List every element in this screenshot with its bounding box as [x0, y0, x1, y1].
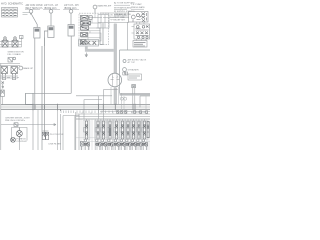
spool V3 pilot cap — [101, 128, 103, 133]
svg-text:PILOT FILTER: PILOT FILTER — [50, 134, 64, 136]
spool V3 stem — [103, 119, 105, 142]
drop x60.6 — [60, 114, 62, 150]
spool V2 feed lines — [96, 119, 101, 150]
spool V6 lower cluster — [120, 139, 122, 142]
check arrow below manifold — [85, 53, 87, 58]
bank mid passage line — [76, 137, 150, 139]
spool V4 tail — [109, 146, 112, 151]
breather symbol — [132, 85, 136, 88]
spool V3 tail — [103, 146, 106, 151]
bank left edge pair — [76, 112, 79, 150]
spool V1 relief cluster — [84, 143, 89, 146]
cylinder 2 body — [68, 25, 74, 37]
swing line horiz y95.8 — [76, 95, 112, 97]
travel motor cluster 2 valve L — [1, 67, 8, 76]
load check blob — [109, 128, 112, 137]
spool V7 body — [127, 121, 129, 139]
port circle D — [29, 10, 33, 14]
cylinder D check arrow — [30, 13, 32, 15]
port relief left cluster — [80, 142, 83, 151]
spool V5 relief cluster — [114, 143, 119, 146]
svg-text:HYD. SCHEMATIC: HYD. SCHEMATIC — [1, 2, 23, 6]
filter drop line — [32, 93, 34, 150]
pump suction line 3 — [98, 22, 129, 24]
vertical drop from block — [100, 23, 103, 45]
cluster A link lines — [88, 18, 102, 29]
spool V10 feed lines — [142, 119, 147, 150]
spool V5 lower cluster — [114, 139, 116, 142]
spool V8 lower cluster — [131, 139, 133, 142]
shuttle out line — [1, 97, 3, 105]
spool V5 tail — [116, 146, 119, 151]
inline check box — [14, 123, 18, 127]
spool V4 body — [109, 121, 111, 139]
svg-text:CENTER SWIVEL JOINT: CENTER SWIVEL JOINT — [5, 117, 30, 119]
drop elbow — [100, 44, 103, 46]
return header stub — [25, 93, 27, 104]
band junction marks — [33, 104, 135, 111]
svg-text:WITH AIR BLEED: WITH AIR BLEED — [114, 7, 132, 10]
pilot filter block — [42, 131, 48, 140]
tank outlet circles — [120, 97, 123, 100]
spool V4 relief cluster — [108, 143, 113, 146]
spool V6 stem — [122, 119, 124, 142]
bank top tick marks — [82, 112, 147, 114]
shuttle valve symbol — [1, 82, 5, 97]
spool V7 lower cluster — [126, 139, 128, 142]
spool V6 body — [121, 121, 123, 139]
accumulator drop — [18, 141, 20, 151]
svg-text:MAKE UP: MAKE UP — [23, 67, 33, 70]
spool V9 lower cluster — [137, 139, 139, 142]
svg-text:T.S. PUMP: T.S. PUMP — [131, 4, 142, 6]
svg-text:LINE FILTER: LINE FILTER — [49, 144, 62, 146]
spool V8 feed lines — [131, 119, 136, 150]
spool V4 lower cluster — [108, 139, 110, 142]
spool V10 relief cluster — [142, 143, 147, 146]
spool V2 stem — [97, 119, 99, 142]
spool V4 pilot cap — [107, 128, 109, 133]
sub tank corner — [140, 96, 150, 108]
parts table — [2, 8, 18, 18]
block inner lines — [81, 31, 101, 38]
regulator side ticks — [132, 27, 150, 41]
accumulator gauge circle — [11, 137, 16, 142]
regulator box — [134, 24, 150, 39]
spool V2 pilot cap — [95, 128, 97, 133]
spool V2 relief cluster — [96, 143, 101, 146]
svg-text:AIR CON COND: AIR CON COND — [26, 4, 43, 7]
spool V7 relief cluster — [126, 143, 131, 146]
svg-text:AT TOP: AT TOP — [128, 61, 136, 64]
accumulator check valve — [16, 128, 22, 141]
return line mid — [41, 46, 43, 150]
cluster 1 riser — [21, 37, 23, 48]
accumulator loop — [12, 128, 28, 141]
spool V10 tail — [144, 146, 147, 151]
cooler box top — [63, 115, 79, 117]
center drop lines — [37, 110, 39, 150]
spool V1 pilot cap — [84, 128, 86, 133]
spool V9 body — [138, 121, 140, 139]
spool V5 feed lines — [114, 119, 119, 150]
cylinder D piston — [35, 29, 40, 32]
pump suction line 2 — [103, 17, 129, 19]
svg-text:STRAINER: STRAINER — [128, 69, 139, 72]
spool V3 relief cluster — [101, 143, 106, 146]
cluster 1 port — [20, 36, 24, 39]
spool V5 stem — [116, 119, 118, 142]
cluster 2 port circle — [19, 66, 23, 70]
pump circle 2 — [137, 14, 140, 17]
pilot pump label box — [133, 41, 147, 48]
bank thin verticals — [81, 119, 149, 150]
spool V6 tail — [122, 146, 125, 151]
spool V9 feed lines — [137, 119, 142, 150]
svg-text:MAIN RELIEF: MAIN RELIEF — [98, 5, 112, 8]
spool V6 relief cluster — [120, 143, 125, 146]
cooler box left — [62, 116, 64, 150]
spool V2 tail — [97, 146, 100, 151]
pump circle 1 — [131, 15, 135, 19]
spool V1 stem — [86, 119, 88, 142]
cylinder 1 rod — [50, 13, 52, 26]
cluster 2 lower pipes — [0, 76, 18, 78]
cluster 2 header lines — [0, 64, 20, 66]
swing line vertical x98.5 — [98, 96, 100, 119]
svg-text:FILL / DRAIN: FILL / DRAIN — [8, 53, 21, 56]
spool V7 tail — [127, 146, 130, 151]
tank boundary top — [120, 49, 151, 51]
swing motor circle — [108, 73, 122, 87]
pump internals dense — [133, 13, 147, 22]
svg-text:• P RELIEF SET: • P RELIEF SET — [110, 20, 126, 22]
cooler box right — [74, 116, 76, 150]
band junction dots — [35, 105, 44, 110]
regulator internals dense — [136, 26, 149, 39]
right manifold risers — [122, 94, 147, 111]
spool V5 body — [115, 121, 117, 139]
spool V8 pilot cap — [131, 128, 133, 133]
cylinder D body — [34, 28, 40, 39]
main return bus line 1 — [1, 104, 150, 106]
main return bus line 2 — [1, 106, 150, 108]
swing drain vertical — [102, 90, 104, 119]
spool V9 relief cluster — [137, 143, 142, 146]
gauge port stem — [94, 9, 96, 13]
spool V4 feed lines — [108, 119, 113, 150]
spool V2 lower cluster — [96, 139, 98, 142]
pilot bus line 1 — [76, 113, 150, 115]
pilot box small — [8, 58, 13, 63]
swing elbow x84 — [84, 100, 102, 119]
travel motor cluster 2 valve R — [11, 67, 18, 76]
travel motor cluster 1 valve R — [12, 37, 18, 47]
tank bottom edge — [120, 92, 151, 94]
pilot block extra marks — [82, 16, 93, 42]
spool V1 body — [85, 121, 87, 139]
pump to regulator links — [137, 22, 144, 24]
delivery pipe casing — [114, 24, 117, 104]
spool V7 feed lines — [126, 119, 131, 150]
breather pipes — [133, 88, 135, 105]
spool V10 body — [143, 121, 145, 139]
spool V10 pilot cap — [142, 128, 144, 133]
spool V10 body — [147, 122, 149, 138]
component row under band — [117, 111, 148, 114]
spool V8 body — [132, 121, 134, 139]
label underline 2 — [63, 8, 79, 10]
spool V9 tail — [138, 146, 141, 151]
port circle 1 — [49, 10, 53, 14]
pump suction line 1 — [100, 12, 129, 14]
outlet box valves — [81, 41, 97, 45]
tank boundary left — [119, 50, 121, 94]
cylinder D diagonal pipe — [32, 15, 38, 28]
spool V1 tail — [86, 146, 89, 151]
tank bottom band — [120, 94, 151, 96]
spool V7 pilot cap — [125, 128, 127, 133]
motor inner marks — [111, 77, 120, 80]
spool V10 lower cluster — [142, 139, 144, 142]
tiny caption row — [2, 76, 19, 78]
label underline 1 — [43, 8, 60, 10]
solenoid valve cluster A — [81, 16, 91, 31]
left frame line — [0, 64, 2, 151]
svg-text:COUPLER: COUPLER — [17, 141, 28, 143]
cylinder D label underline — [25, 8, 40, 10]
motor pilot boxes — [123, 72, 128, 75]
tank port circle a — [123, 60, 126, 63]
svg-text:AIR BLEED VALVE: AIR BLEED VALVE — [128, 59, 147, 62]
cylinder 1 piston — [49, 27, 54, 30]
parts table cell text — [2, 9, 16, 15]
svg-text:GREASE FILLED: GREASE FILLED — [114, 13, 132, 16]
right band extra line — [100, 110, 150, 112]
band tick row left of bank — [61, 111, 113, 114]
block right sub-box — [98, 15, 109, 29]
cylinder 2 rod — [70, 13, 72, 24]
cylinder 2 piston — [69, 26, 74, 29]
cylinder 1 body — [48, 26, 54, 38]
port circle 2 — [69, 10, 73, 14]
gauge port circle — [93, 5, 97, 9]
tank name box — [128, 74, 142, 80]
spool V3 body — [102, 121, 104, 139]
spool V8 stem — [133, 119, 135, 142]
spool V10 stem — [144, 119, 146, 142]
motor side verticals — [111, 87, 119, 104]
note leader dashes top right — [114, 5, 144, 16]
pilot valve block border — [79, 13, 109, 45]
tank port circle b — [123, 68, 127, 72]
spool V5 pilot cap — [114, 128, 116, 133]
pilot box port circle — [13, 57, 16, 60]
main return bus line 3 — [1, 108, 150, 110]
filter box — [26, 93, 34, 104]
pilot bus line 3 — [76, 118, 150, 120]
spool V7 stem — [127, 119, 129, 142]
spool V3 feed lines — [101, 119, 106, 150]
cluster 2 drain marks R — [12, 76, 16, 80]
strainer drop line — [125, 71, 129, 74]
cluster 1 pipes — [0, 42, 22, 48]
swing motor relief lines — [103, 89, 118, 91]
svg-text:PRE CHG 0.98 MPa: PRE CHG 0.98 MPa — [5, 120, 26, 122]
travel motor cluster 1 valve L — [2, 37, 8, 47]
cylinder D drain pipe — [34, 38, 36, 110]
valve manifold outlet box — [79, 40, 99, 47]
spool V8 relief cluster — [131, 143, 136, 146]
bank lower link line — [80, 140, 150, 142]
spool V8 tail — [133, 146, 136, 151]
cylinder 1 head pipe — [43, 38, 45, 138]
pump box — [129, 12, 149, 23]
main delivery thick pipe — [86, 24, 115, 105]
spool outline boxes — [83, 121, 148, 140]
spool V9 pilot cap — [136, 128, 138, 133]
svg-text:PRESS RATE: PRESS RATE — [131, 6, 145, 9]
spool V3 lower cluster — [101, 139, 103, 142]
spool V2 body — [97, 121, 99, 139]
cylinder 2 head pipe — [70, 36, 72, 93]
spool V6 pilot cap — [120, 128, 122, 133]
pilot passage line — [96, 121, 150, 123]
spool V9 stem — [138, 119, 140, 142]
spool V1 feed lines — [84, 119, 89, 150]
supply branch line — [1, 124, 56, 126]
spool V1 lower cluster — [84, 139, 86, 142]
block inner box — [88, 33, 101, 41]
cylinder 1 port elbow — [44, 31, 47, 46]
pilot bus line 2 — [76, 115, 150, 117]
solenoid valve cluster B — [81, 33, 88, 45]
accumulator sub label — [23, 13, 30, 15]
block inner extra lines — [90, 13, 101, 33]
mid return header — [26, 92, 72, 94]
spool V4 stem — [109, 119, 111, 142]
drop x57.6 — [57, 110, 59, 150]
spool V6 feed lines — [120, 119, 125, 150]
motor inner lines — [113, 74, 118, 87]
pump case drain — [127, 22, 129, 50]
cluster 2 drain marks L — [2, 76, 6, 80]
